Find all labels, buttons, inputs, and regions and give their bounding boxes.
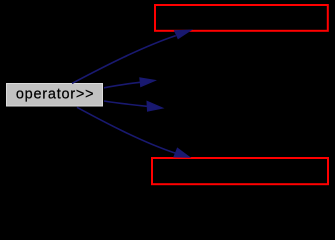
node operator>> (current function, grey box) [7, 84, 103, 107]
edge to upper middle (invisible node) [104, 78, 155, 88]
svg-text:operator>>: operator>> [16, 87, 94, 103]
edge to top red box [72, 30, 191, 83]
edge to bottom red box [77, 107, 190, 157]
edge to lower middle (invisible node) [104, 101, 163, 111]
node truncated bottom (red box) [152, 158, 328, 184]
node truncated top (red box) [155, 5, 328, 31]
